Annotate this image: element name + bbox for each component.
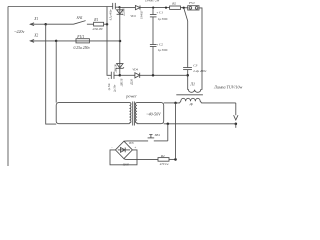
lamp filament EL1 — [188, 90, 202, 93]
wire: middle vertical from top wire — [107, 7, 111, 76]
connector X1 arrow — [30, 23, 45, 26]
diode VD2 — [117, 10, 123, 15]
node: C1 bottom node — [152, 74, 155, 77]
svg-text:1N4007 2W: 1N4007 2W — [145, 0, 160, 3]
node: X1 branch node — [44, 23, 47, 26]
diode VD1 — [135, 6, 140, 10]
node: FV1 left node — [183, 7, 185, 9]
node: zener bottom node — [119, 74, 122, 77]
transformer T1 secondary winding box — [135, 103, 163, 124]
node: X2 right end node — [119, 40, 122, 43]
svg-text:+: + — [134, 145, 136, 149]
svg-text:FU1: FU1 — [76, 35, 84, 39]
wire: bridge bottom vertex to R2 — [124, 158, 158, 161]
svg-text:Лампа TUV/10w: Лампа TUV/10w — [213, 85, 243, 90]
svg-text:C1: C1 — [159, 11, 163, 15]
svg-text:1μ 500v: 1μ 500v — [158, 48, 169, 52]
svg-text:0,5μ 400v: 0,5μ 400v — [110, 9, 113, 20]
resistor R2 (top) — [170, 6, 181, 9]
wire: C3 to filament node — [187, 70, 189, 90]
wire: VD4 to C3 node — [140, 74, 188, 76]
node: R1 output node — [106, 23, 109, 26]
node: top node after C4 — [118, 6, 120, 8]
svg-text:Д226Б: Д226Б — [122, 8, 125, 17]
connector X2 arrow — [30, 40, 56, 43]
wire: X1 left vertical to transformer bottom — [46, 24, 57, 124]
wire: after C4 to node — [115, 6, 119, 8]
wire: left return wire down left side — [7, 7, 9, 167]
svg-text:FV1: FV1 — [188, 1, 195, 5]
svg-text:power: power — [125, 94, 137, 99]
svg-text:Др: Др — [189, 102, 194, 106]
wire: X2 to FU1 — [56, 40, 120, 42]
svg-text:VD4: VD4 — [132, 68, 138, 72]
wire: secondary top to winding node — [164, 102, 176, 104]
wire: VD1 to R2 — [140, 7, 170, 9]
transformer core line — [176, 94, 203, 96]
svg-text:1N4007: 1N4007 — [141, 10, 144, 19]
fuse FU1 — [76, 39, 89, 43]
capacitor C1 — [150, 8, 157, 17]
svg-text:470 1w: 470 1w — [160, 162, 170, 166]
svg-text:-: - — [111, 145, 112, 149]
wire: X1 to SA1 — [46, 23, 74, 25]
svg-text:2μ 50v: 2μ 50v — [113, 84, 116, 92]
wire: SB1 left wire to bridge top — [127, 140, 148, 142]
node: SB1 branch node — [167, 123, 170, 126]
resistor R1 — [94, 22, 104, 26]
svg-text:+: + — [108, 77, 110, 81]
svg-text:SB1: SB1 — [155, 133, 161, 137]
inductor winding of heater transformer — [176, 98, 236, 103]
wire: long vertical from winding node to R2 node — [175, 103, 177, 159]
transformer T1 core — [133, 102, 135, 126]
wire: diagonal from FV1 node — [184, 8, 188, 21]
svg-text:R2: R2 — [160, 154, 165, 158]
transformer T1 primary winding box — [56, 103, 131, 124]
switch SA1 — [74, 21, 86, 25]
push button SB1 — [148, 135, 155, 138]
wire: mid wire to VD4 — [120, 74, 135, 76]
capacitor C5 (series electrolytic) — [111, 72, 114, 79]
svg-text:Д815Ж: Д815Ж — [115, 63, 118, 73]
node: C1 branch node — [152, 7, 154, 9]
wire: SB1 branch vertical — [167, 124, 169, 141]
svg-text:C3: C3 — [193, 64, 197, 68]
svg-text:0.25a 250v: 0.25a 250v — [74, 46, 91, 50]
wire: VD2 vertical upper segment — [119, 7, 121, 41]
wire: VD3 vertical lower segment — [119, 41, 121, 75]
svg-text:47Ω 2W: 47Ω 2W — [92, 27, 103, 31]
node: winding left node — [174, 102, 177, 105]
wire: R1 to middle vertical — [104, 23, 107, 25]
svg-text:R2: R2 — [171, 2, 176, 6]
wire: top wire left segment — [8, 6, 113, 8]
wire: FV1 right lead and corner down — [199, 8, 202, 90]
svg-text:1μ 50v: 1μ 50v — [108, 83, 111, 91]
capacitor C3 — [183, 68, 192, 70]
node: C3 bottom node — [186, 74, 189, 77]
bridge rectifier VD5 — [115, 141, 132, 159]
wire: bend to bridge top vertex — [124, 140, 127, 142]
svg-text:Д226: Д226 — [131, 78, 134, 85]
wire: bridge side loop — [110, 150, 137, 165]
wire: C1 down to C2 — [152, 17, 154, 45]
svg-text:~220v: ~220v — [14, 29, 24, 34]
node: X2 branch node — [55, 40, 58, 43]
wire: SA1 to R1 — [87, 23, 94, 25]
svg-text:+: + — [156, 11, 158, 15]
svg-text:Л1: Л1 — [189, 82, 195, 87]
wire: top wire to VD1 — [120, 7, 136, 9]
svg-text:X1: X1 — [33, 17, 38, 21]
svg-text:+: + — [156, 43, 158, 47]
node: R2 right node — [174, 158, 177, 161]
svg-text:X2: X2 — [33, 34, 38, 38]
zener diode VD3 — [116, 64, 124, 70]
node: node before R2 — [165, 7, 167, 9]
svg-text:SA1: SA1 — [77, 16, 83, 20]
wire: lamp pin arrow — [234, 103, 238, 120]
svg-text:2.2μ 400v: 2.2μ 400v — [193, 69, 207, 73]
wire: secondary bottom wire to lamp pin — [164, 123, 236, 125]
wire: C2 down to mid wire — [152, 47, 154, 76]
svg-text:VD1: VD1 — [130, 14, 136, 18]
diode VD4 — [135, 73, 140, 78]
svg-text:~40-50V: ~40-50V — [146, 112, 161, 117]
wire: R2 to FV1 node — [181, 7, 188, 9]
svg-text:Ц405: Ц405 — [122, 164, 130, 167]
fuse holder FV1 — [188, 6, 199, 10]
svg-text:C2: C2 — [159, 42, 163, 46]
node: lamp pin node — [235, 123, 238, 126]
svg-text:1μ 500v: 1μ 500v — [158, 17, 169, 21]
wire: stub below lamp pin node — [235, 124, 237, 128]
resistor R2 (bottom) — [158, 158, 169, 162]
wire: X2 vertical to transformer top — [55, 41, 57, 103]
capacitor C4 (series mains dropper) — [113, 3, 116, 9]
svg-text:Д815Б: Д815Б — [120, 78, 123, 87]
wire: C5 to zener node — [114, 74, 120, 76]
svg-text:R1: R1 — [93, 18, 98, 22]
wire: R2 to right vertical — [169, 158, 176, 160]
wire: SB1 right wire — [154, 140, 168, 142]
wire: lamp left vertical down to C3 — [187, 21, 189, 68]
capacitor C2 (doubler) — [150, 45, 157, 47]
